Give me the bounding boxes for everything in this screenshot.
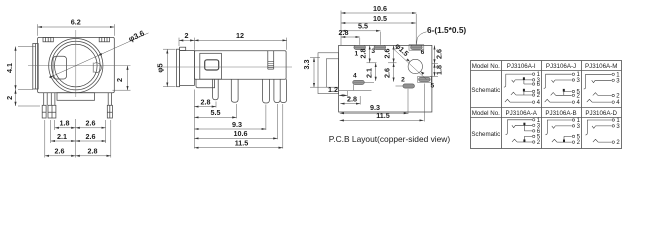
svg-text:10.6: 10.6 [373,4,387,13]
pin B end cross-section [48,105,56,118]
side view switch window [205,60,219,70]
dim 11.5 side line [194,147,282,149]
dim 2.6 column top line [393,45,395,62]
svg-text:4: 4 [616,100,620,106]
dim 6.2 line [38,26,115,28]
wire terminal 4 cell J with contact [545,99,572,102]
slot label leader [416,32,426,45]
dim 2 top extension lines [179,38,287,50]
pad 5 slot box [418,77,432,83]
junction tick 5-2 cell I [523,89,525,92]
pad 4 [353,80,365,84]
junction tick 3-6 cell A [523,123,525,126]
dim 9.3 pcb line [340,112,408,114]
schematic PJ3106A-M [584,72,621,106]
dim 1.2 extension [346,91,348,97]
wire terminal 2 cell A with contact [512,139,532,142]
dim 1.2 line [339,94,348,96]
svg-text:φ3.6: φ3.6 [127,28,146,43]
svg-text:PJ3106A-D: PJ3106A-D [585,110,617,117]
side view barrel lip [177,49,180,86]
dim 2.6 right line [434,45,436,63]
dim 11.5 pcb line [340,119,424,121]
dim 2.8 side line [194,106,216,108]
svg-text:2.6: 2.6 [434,49,443,59]
dim 10.6 pcb line [341,12,416,14]
dim 2.8 pcb top line [341,36,360,38]
terminal circles cell J [572,73,574,103]
svg-text:3: 3 [371,48,375,55]
front view knurl left [43,37,53,41]
dim 2.8 column line [369,45,371,62]
pad 5 [419,77,431,81]
svg-text:2: 2 [115,78,124,82]
wire terminal 2 cell M with contact [593,93,612,96]
terminal numbers cell A [537,118,541,146]
svg-text:10.5: 10.5 [373,14,387,23]
pad 3 [374,45,386,49]
pad 6 [411,45,423,49]
svg-text:3: 3 [577,124,581,130]
pcb aux line under pad 4 [339,85,372,91]
wire terminal 6 cell I with junction [524,80,532,84]
svg-text:6.2: 6.2 [71,18,81,27]
svg-text:4.1: 4.1 [5,63,14,73]
svg-text:2: 2 [616,140,620,146]
wire terminal 3 cell A with switch contact [512,125,532,127]
dim 1.8 right line [434,64,436,77]
svg-text:2: 2 [616,94,620,100]
pin C leads [108,93,111,106]
wire terminal 5 cell J [564,92,572,96]
svg-text:Schematic: Schematic [471,131,500,138]
svg-text:4: 4 [577,100,581,106]
dim 10.6 side line [194,137,277,139]
terminal numbers cell M [616,72,620,106]
wire terminal 4 cell M with contact [587,99,612,102]
dim 6.2 extension lines [38,24,115,36]
svg-text:1.2: 1.2 [328,85,338,94]
terminal circles cell I [532,73,534,103]
table outer border [471,61,622,149]
junction tick 3-6 cell I [523,77,525,80]
wire terminal 4 cell I with contact [505,99,532,102]
junction tick 5-2 cell B [563,140,565,143]
wire terminal 2 cell D with contact [593,139,612,142]
dim 2.1 line [51,140,76,142]
svg-text:11.5: 11.5 [376,111,390,120]
dim 2.6 right extension [430,64,438,77]
schematic PJ3106A-A [506,118,541,146]
side view front foot [196,79,215,88]
wire terminal 2 cell J with contact [551,93,572,96]
dim 2 mid line [127,66,129,91]
dim 2 left line [15,90,17,107]
dim 2.8 pcb bottom extension [359,96,361,105]
svg-text:4: 4 [353,73,357,80]
dim 2.1 column line [375,63,377,81]
phi3.6 leader line [49,33,149,78]
svg-text:PJ3106A-I: PJ3106A-I [507,63,536,70]
dim 2.6 column extension [388,62,397,64]
side view pin 4 [274,79,280,102]
svg-text:2.8: 2.8 [88,147,98,156]
terminal numbers cell B [577,118,581,146]
wire terminal 5 cell I [524,91,532,95]
dim 2 top line [179,39,194,41]
dim 2.8 row3 line [76,155,111,157]
wire terminal 3 cell B with switch contact [552,126,572,128]
svg-text:2: 2 [577,140,581,146]
wire terminal 2 cell B with contact [552,139,572,142]
dim 5.5 pcb line [341,30,380,32]
svg-text:P.C.B Layout(copper-sided view: P.C.B Layout(copper-sided view) [329,134,451,144]
svg-text:2.8: 2.8 [347,94,357,103]
svg-text:2.1: 2.1 [57,132,67,141]
dim 2.6 row1 line [76,127,106,129]
svg-text:2.8: 2.8 [359,49,368,59]
svg-text:5.5: 5.5 [358,22,368,31]
svg-text:PJ3106A-A: PJ3106A-A [506,110,538,117]
side view right slot [268,51,274,69]
wire terminal 5 cell B [564,136,572,142]
svg-text:2.8: 2.8 [201,97,211,106]
svg-text:Schematic: Schematic [471,87,500,94]
dim 2 mid extension line [113,89,131,91]
terminal circles cell B [572,119,574,144]
schematic PJ3106A-I [504,72,541,106]
side view switch box [200,53,222,79]
dim 3.3 line [313,58,315,88]
pcb center hole circle [408,59,422,73]
pcb top dim extension lines [341,11,416,46]
phi1.5 leader arrows [406,59,424,75]
svg-text:2.6: 2.6 [383,49,392,59]
inner contact arc right [93,63,101,73]
side view pin 3 [263,79,270,103]
pin A leads [44,93,48,106]
terminal numbers cell D [616,118,620,146]
dim 2.8 pcb bottom line [340,103,360,105]
svg-text:3: 3 [577,78,581,84]
dim 12 line [194,39,286,41]
dim 2.6 column bottom line [393,63,395,82]
dim 5.5 side line [194,116,236,118]
svg-text:3.3: 3.3 [302,60,311,70]
svg-text:3: 3 [616,124,620,130]
dim 10.5 pcb line [341,22,416,24]
pad 4 stub line [365,81,375,83]
wire terminal 5 cell A [524,136,532,142]
svg-text:PJ3106A-J: PJ3106A-J [546,63,576,70]
schematic PJ3106A-D [585,118,620,146]
svg-text:φ1.5: φ1.5 [393,41,410,58]
svg-text:1: 1 [354,50,358,57]
svg-text:PJ3106A-B: PJ3106A-B [545,110,576,117]
svg-text:9.3: 9.3 [232,120,242,129]
dim 1.8 line [55,127,76,129]
svg-text:5.5: 5.5 [211,108,221,117]
svg-text:5: 5 [430,83,434,90]
svg-text:2: 2 [185,31,189,40]
barrel circle outer [49,39,103,93]
svg-text:2.6: 2.6 [86,119,96,128]
inner contact hole rounded rect [53,56,67,79]
pcb body outline outer [318,53,339,94]
schematic PJ3106A-B [545,118,580,146]
svg-text:Model No.: Model No. [472,110,500,117]
wire terminal 3 cell D with switch contact [592,126,612,128]
pad 6 slot box [409,45,424,51]
table row lines [471,71,622,118]
pad centerlines [353,47,431,86]
front view body outline [38,37,115,92]
pin C end cross-section [107,105,112,118]
svg-text:11.5: 11.5 [235,139,249,148]
terminal circles cell D [612,119,614,144]
dim 4.1/2 extension lines [18,47,40,107]
wire terminal 1 cell B [545,120,571,135]
pin B leads [51,93,55,106]
wire terminal 1 cell J [544,74,572,88]
pad 2 stub line [396,85,403,87]
pad 2 [403,84,415,88]
side view barrel top tab [180,47,186,50]
phi1.5 leader line [393,48,427,79]
svg-text:2.6: 2.6 [55,147,65,156]
side view pin 1 [213,79,219,100]
side view pin 5 [280,79,286,102]
svg-text:2.8: 2.8 [339,28,349,37]
wire terminal 1 cell M [584,74,612,89]
svg-text:1.8: 1.8 [434,65,443,75]
barrel circle 2 [52,41,101,90]
bottom dim extension lines [45,119,111,158]
svg-text:12: 12 [236,31,244,40]
wire terminal 1 cell A [506,120,533,135]
svg-text:2: 2 [577,93,581,99]
dim 2.8 column extension [367,62,377,64]
svg-text:φ5: φ5 [156,63,165,72]
svg-text:PJ3106A-M: PJ3106A-M [585,63,617,70]
center crosshair lines [28,30,131,97]
pcb body outline inner [326,59,338,87]
junction tick 5-2 cell J [563,89,565,92]
svg-text:2.6: 2.6 [86,132,96,141]
wire terminal 3 cell I with switch contact [512,80,532,82]
terminal numbers cell I [537,72,541,106]
svg-text:1.8: 1.8 [60,119,70,128]
svg-text:4: 4 [537,100,541,106]
svg-text:2: 2 [537,93,541,99]
svg-text:3: 3 [616,78,620,84]
barrel circle 3 (phi 3.6 bore) [55,44,98,87]
wire terminal 2 cell I with contact [511,92,532,95]
svg-text:2: 2 [537,140,541,146]
side view slot pin hatch [268,61,274,67]
pcb board outline [339,45,432,112]
dim 4.1 line [15,47,17,90]
dim 2.6 row2 line [76,140,107,142]
wire terminal 6 cell A with junction [524,125,532,131]
svg-text:6-(1.5*0.5): 6-(1.5*0.5) [427,25,466,35]
dim 11.5 pcb extension [423,84,425,122]
dim 9.3 side line [194,128,266,130]
dim phi5 line [166,49,168,86]
bottom tab [57,93,95,101]
side view barrel [180,51,195,86]
dim phi5 extension lines [163,49,176,86]
dim 9.3 pcb extension [407,89,409,114]
front view left mounting tab [33,44,38,90]
side bottom dim extension lines [194,90,282,149]
terminal circles cell M [612,73,614,103]
svg-text:Model No.: Model No. [472,63,500,70]
wire terminal 1 cell D [585,120,611,135]
svg-text:2: 2 [5,96,14,100]
wire terminal 3 cell M with switch contact [592,80,612,82]
schematic PJ3106A-J [544,72,581,106]
side view centerline [157,66,292,68]
dim 3.3 extension lines [310,58,327,88]
terminal numbers cell J [577,72,581,106]
dim 2.6 row3 line [45,155,76,157]
terminal circles cell A [533,119,535,144]
pin A end cross-section [42,105,46,118]
svg-text:10.6: 10.6 [234,129,248,138]
pad 1 [354,45,366,49]
svg-text:6: 6 [537,82,541,88]
side view body [194,51,286,79]
svg-text:2.1: 2.1 [365,68,374,78]
table column lines [502,61,582,149]
side view pin 2 [231,79,238,102]
front view knurl right [99,37,109,41]
phi3.6 leader arrows [50,53,103,78]
svg-text:6: 6 [421,49,425,56]
wire terminal 3 cell J with switch contact [552,80,572,82]
junction tick 5-2 cell A [523,139,525,142]
svg-text:2.6: 2.6 [383,68,392,78]
svg-text:2: 2 [401,77,405,84]
wire terminal 1 cell I [504,74,532,87]
